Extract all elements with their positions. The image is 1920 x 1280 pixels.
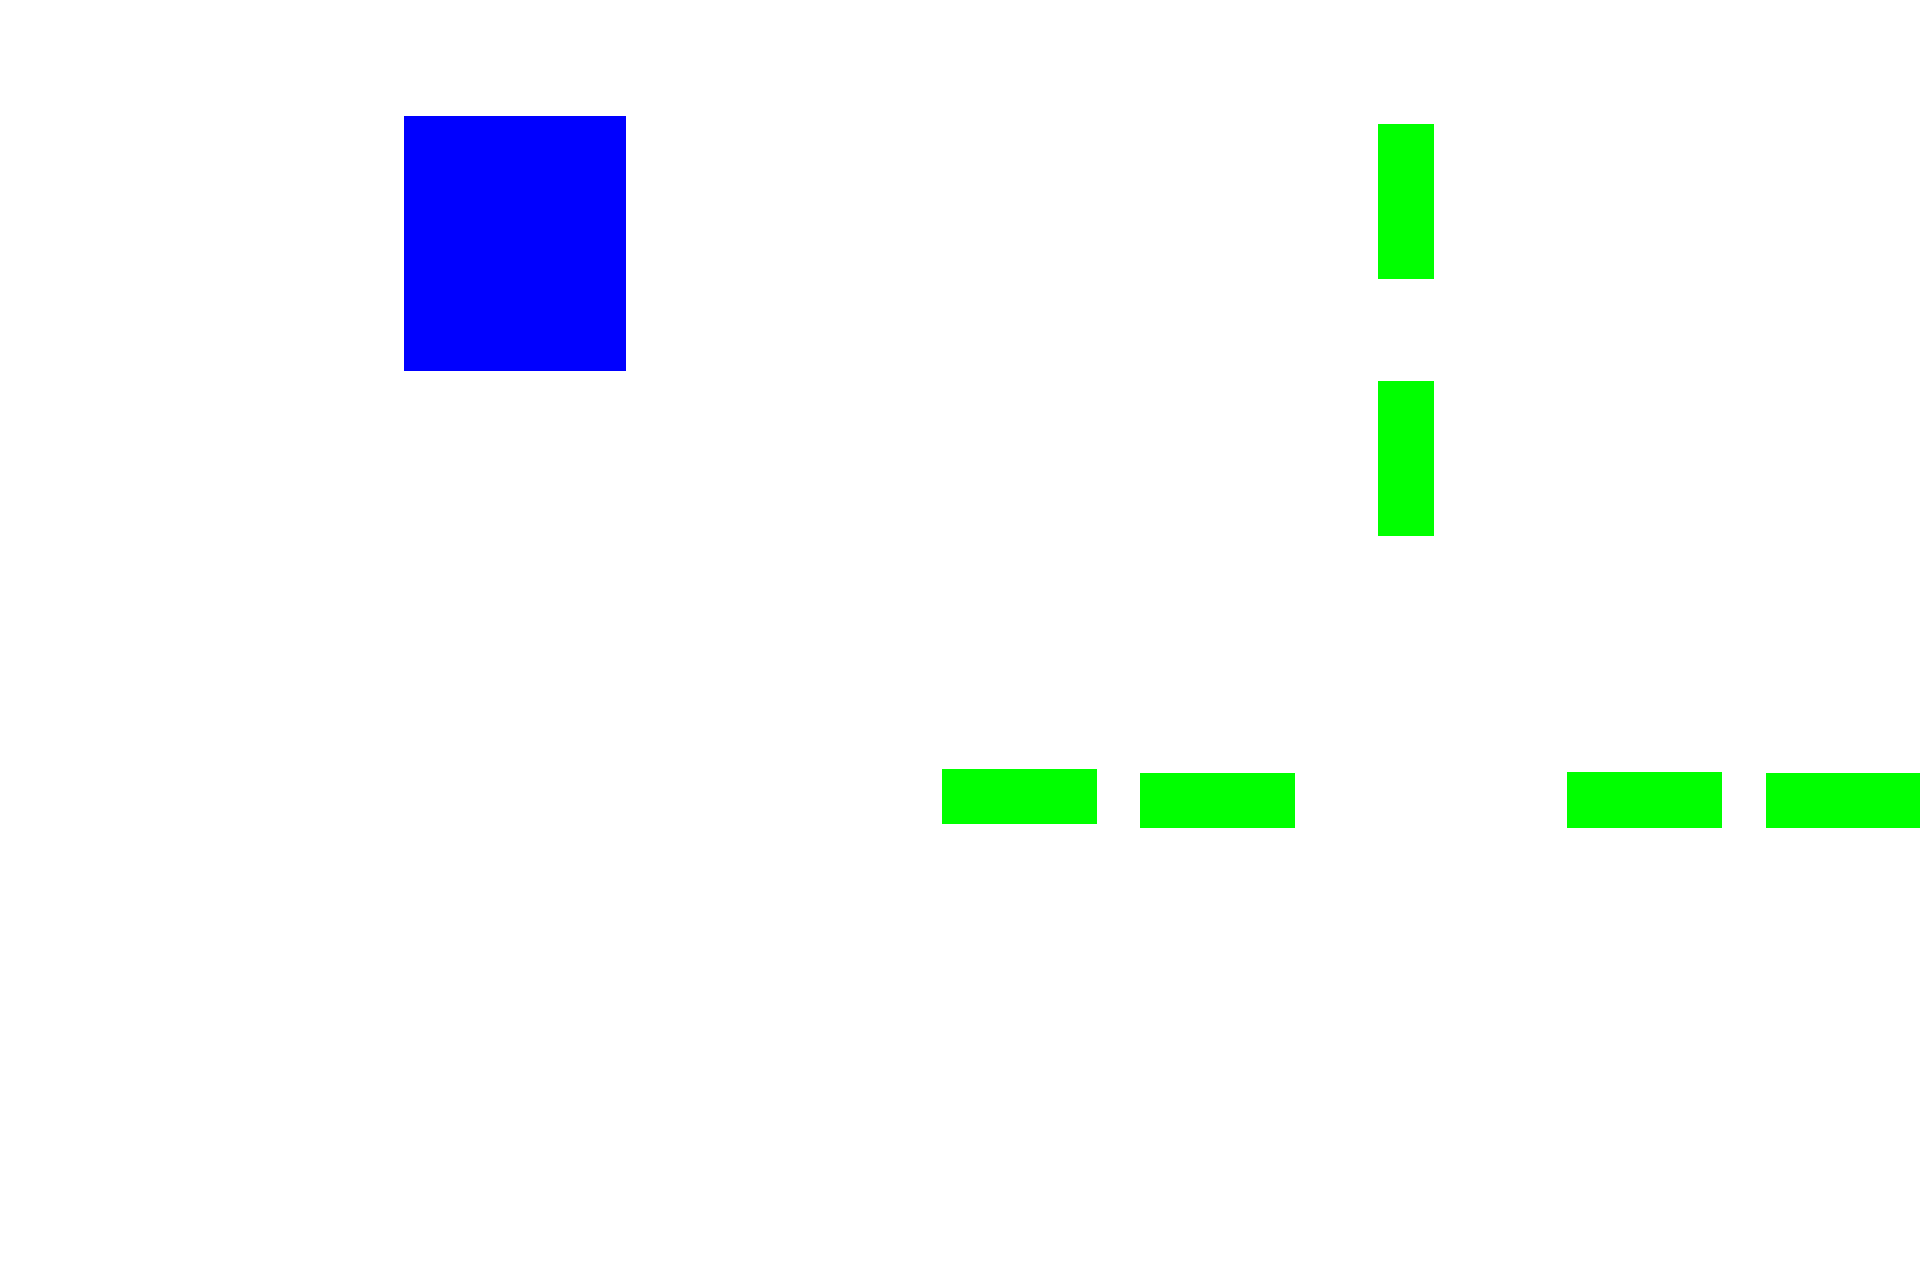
green vertical rectangle 2 (lower) xyxy=(1378,381,1434,536)
green horizontal rectangle C xyxy=(1567,772,1722,828)
green horizontal rectangle D (clipped at right edge) xyxy=(1766,773,1920,828)
blue rectangle xyxy=(404,116,626,371)
green horizontal rectangle B xyxy=(1140,773,1295,828)
green horizontal rectangle A xyxy=(942,769,1097,824)
green vertical rectangle 1 (upper) xyxy=(1378,124,1434,279)
